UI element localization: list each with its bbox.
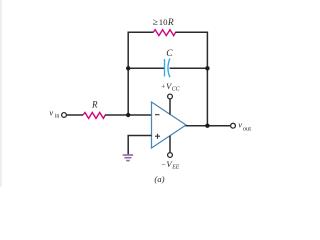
svg-text:R: R (91, 100, 98, 110)
svg-text:CC: CC (172, 87, 180, 93)
wire input left (67, 114, 83, 116)
wire input right to op-amp (105, 114, 152, 116)
wire capacitor rail right (170, 67, 208, 69)
svg-text:out: out (243, 126, 251, 133)
svg-text:v: v (238, 119, 242, 129)
wire right vertical (feedback) (206, 32, 208, 126)
svg-text:(a): (a) (154, 174, 164, 184)
svg-text:in: in (55, 114, 60, 120)
svg-text:+: + (161, 83, 165, 91)
resistor R (input) (83, 100, 105, 119)
node inverting input junction (126, 113, 130, 117)
terminal v_out (231, 119, 252, 132)
wire capacitor rail left (128, 67, 164, 69)
wire -VEE supply (169, 136, 171, 153)
wire left vertical (feedback) (127, 32, 129, 116)
terminal v_in (49, 107, 66, 119)
wire output (186, 125, 231, 127)
ground (123, 155, 133, 161)
wire top rail right segment (175, 31, 208, 33)
node output junction (205, 124, 209, 128)
wire noninverting input to ground (128, 136, 151, 155)
wire +VCC supply (169, 99, 171, 115)
svg-text:≥10R: ≥10R (153, 17, 174, 28)
resistor >=10R (feedback) (153, 17, 176, 36)
svg-text:EE: EE (171, 164, 180, 170)
terminal -VEE (161, 153, 180, 171)
capacitor C (165, 48, 174, 77)
svg-text:C: C (166, 48, 173, 59)
svg-text:v: v (49, 107, 53, 117)
terminal +VCC (161, 81, 179, 99)
node capacitor right junction (205, 66, 209, 70)
wire top rail left segment (128, 31, 153, 33)
page left edge shading (0, 0, 2, 187)
node capacitor left junction (126, 66, 130, 70)
op-amp (152, 102, 187, 148)
